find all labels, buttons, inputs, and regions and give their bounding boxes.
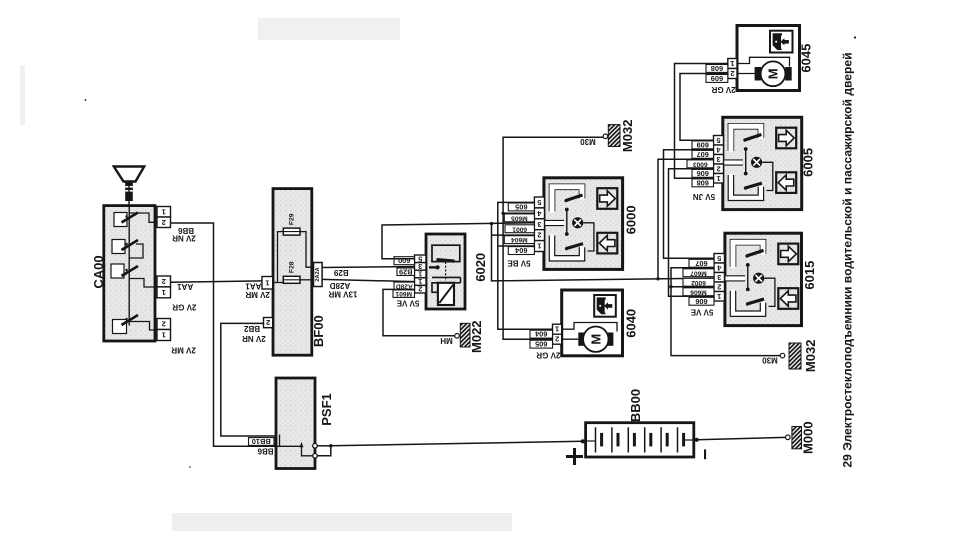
label 605 [508,203,534,211]
svg-text:M: M [588,334,603,345]
svg-text:5V BE: 5V BE [507,258,531,267]
svg-text:2V MR: 2V MR [245,290,270,299]
svg-text:M30: M30 [762,356,778,365]
svg-text:M606: M606 [690,288,707,295]
svg-text:B29: B29 [399,267,413,276]
svg-text:M032: M032 [803,340,818,373]
svg-text:MH: MH [440,336,453,345]
svg-text:6045: 6045 [799,44,814,73]
svg-text:M607: M607 [690,269,707,276]
6045 motor symbol [737,57,790,66]
junction M605 [501,212,504,215]
6015 connector pins [714,254,725,264]
svg-text:2: 2 [162,218,166,227]
svg-text:1: 1 [162,207,166,216]
label 606 at 6015 [689,297,714,305]
faint scan artifacts [258,18,400,40]
svg-text:M604: M604 [511,236,528,243]
wire M607/M606 to ground [671,268,780,356]
label 607 at 6005 [692,150,714,158]
6045 door icon [770,31,793,53]
speck [854,36,856,38]
label M601 [393,290,415,298]
svg-text:6040: 6040 [624,309,639,338]
svg-text:2V MR: 2V MR [171,346,196,355]
svg-text:1: 1 [537,242,541,251]
svg-text:2V NR: 2V NR [172,234,196,243]
svg-text:PSF1: PSF1 [319,393,334,426]
label minus [704,449,706,459]
switch 6020 [426,234,465,309]
svg-text:CA00: CA00 [91,255,106,288]
CA00 internal contacts [114,213,127,227]
label M606 [683,288,714,296]
wire AA1 CA00 to BF00 [171,281,263,282]
ground M000 [786,435,791,440]
label 6001 [505,225,534,233]
svg-text:2: 2 [555,335,559,344]
ground M022 [455,334,460,339]
svg-text:604: 604 [534,330,547,339]
switch 6005 [723,117,802,209]
label B29 at 6020 [397,268,415,276]
svg-text:M: M [766,68,781,79]
svg-text:F28: F28 [288,261,295,273]
svg-text:6001: 6001 [512,225,527,232]
label 6003 [687,160,714,168]
svg-text:2V GR: 2V GR [172,303,196,312]
svg-text:1: 1 [717,292,721,301]
svg-text:2V NR: 2V NR [242,334,266,343]
wire BB6 CA00 to PSF1 [171,223,277,446]
svg-text:605: 605 [515,202,527,211]
CA00 connector pins 2/1 (middle) [157,276,171,287]
svg-text:BB6: BB6 [257,446,274,455]
ground M032 right [780,353,785,358]
battery cells [595,427,597,452]
svg-text:6015: 6015 [802,261,817,290]
6000 interior [545,187,618,258]
label 604 [508,247,534,255]
CA00 connector pins 1/2 (top) [157,207,171,218]
wire M605 stub [503,212,534,214]
BF00 pin 1 [262,277,273,290]
svg-text:M605: M605 [511,214,528,221]
fuse box BF00 [273,189,312,356]
fuse F29 [283,228,300,235]
label 607 at 6015 [689,259,714,267]
svg-text:606: 606 [697,169,709,178]
label 609 [706,75,728,83]
wire 600 [382,223,534,259]
svg-text:604: 604 [514,246,527,255]
svg-text:A28D: A28D [396,282,413,289]
svg-text:3: 3 [717,273,721,282]
svg-text:1: 1 [716,174,720,183]
6045 connector pins [728,59,737,69]
svg-text:2: 2 [537,231,541,240]
svg-text:1: 1 [555,325,559,334]
junction 6003 on 6002 wire [656,277,659,280]
relay box PSF1 [276,378,315,469]
CA00 connector pins 2/1 (bottom) [157,319,171,330]
svg-text:2: 2 [717,282,721,291]
scan artifact band bottom [172,513,512,531]
svg-text:606: 606 [695,297,707,306]
label 606 at 6005 [692,169,714,177]
label M605 [504,214,534,222]
label plus [566,448,583,465]
svg-text:2: 2 [418,285,422,294]
wire key to CA00 [128,181,130,207]
wire PSF1 terminals join [317,446,331,456]
label 6002 [683,278,714,286]
svg-text:6003: 6003 [693,160,708,167]
svg-text:2: 2 [716,164,720,173]
6000 connector pins [534,197,544,208]
svg-text:1: 1 [265,278,269,287]
battery BB00 [586,423,694,457]
label 604 at 6040 [530,330,553,338]
svg-text:29 Электростеклоподъемники вод: 29 Электростеклоподъемники водительской … [841,52,855,467]
svg-text:5V JN: 5V JN [693,192,715,201]
6020 interior [432,245,460,261]
svg-text:2: 2 [162,320,166,329]
svg-text:13V MR: 13V MR [328,289,357,298]
svg-text:1: 1 [162,331,166,340]
svg-text:BB00: BB00 [628,389,643,422]
svg-text:608: 608 [711,64,723,73]
svg-text:2: 2 [162,277,166,286]
svg-text:AA1: AA1 [245,281,262,290]
6005 connector pins [714,136,724,146]
svg-text:M30: M30 [580,137,596,146]
wire M30 ground lane to 6040 [503,137,605,339]
ignition switch CA00 [104,206,155,341]
label 605 at 6040 [530,340,553,348]
svg-text:609: 609 [711,74,723,83]
label BB10 [249,438,275,446]
PSF1 internal wire and terminals [274,445,302,447]
label A28D at 6020 [394,282,415,290]
wire 609 6045 to 6005 [680,74,728,141]
svg-text:B29: B29 [333,268,348,277]
svg-text:6005: 6005 [800,148,815,177]
window motor 6040 [562,290,623,356]
BF00 internal wiring [273,282,284,284]
svg-text:3: 3 [716,155,720,164]
svg-text:5: 5 [537,198,541,207]
svg-text:M022: M022 [469,320,484,353]
wire 605 lane to 6040 [498,202,553,329]
svg-text:608: 608 [697,178,709,187]
label M607 [683,269,714,277]
6020 connector pins [415,255,427,263]
wire M601 to ground M022 [383,289,455,335]
svg-text:6000: 6000 [623,205,638,234]
battery terminals [581,439,585,443]
svg-text:5: 5 [717,254,721,263]
svg-text:3: 3 [537,220,541,229]
label 600 [394,257,415,265]
svg-text:BF00: BF00 [311,315,326,347]
svg-text:2A2A: 2A2A [315,267,321,281]
6040 motor symbol [562,323,617,332]
svg-text:6002: 6002 [691,279,706,286]
svg-text:1: 1 [730,59,734,68]
wire A28D [322,279,414,281]
svg-text:F29: F29 [288,213,295,225]
svg-text:1: 1 [162,288,166,297]
svg-text:2: 2 [730,69,734,78]
svg-text:605: 605 [535,340,547,349]
svg-text:5: 5 [716,136,720,145]
connector 2A2A [314,263,323,287]
wire 606 6005 to 6015 [669,169,715,297]
svg-text:BB2: BB2 [243,324,260,333]
key symbol [114,167,144,182]
label M604 [504,236,534,244]
label 608 at 6005 [692,179,714,187]
wire BB2 BF00 to PSF1 [221,323,280,446]
switch 6000 [544,178,623,270]
wire 604 stub [498,245,535,247]
wire 608 6045 to 6005 [675,64,728,179]
svg-text:609: 609 [697,140,709,149]
svg-text:607: 607 [695,259,707,268]
wire M604 stub [492,234,535,236]
svg-text:607: 607 [697,150,709,159]
label 609 at 6005 [692,141,714,149]
wire battery to M000 [697,437,786,439]
svg-text:6020: 6020 [473,253,488,282]
label 608 [706,65,728,73]
fuse F28 [283,276,300,283]
junction 6001 [490,222,493,225]
6040 connector pins [553,324,562,334]
wire PSF1 to battery + [331,441,583,446]
svg-text:5V VE: 5V VE [690,308,713,317]
wire 6001/6002 lane [492,224,715,281]
BF00 pin 2 [264,318,273,328]
wire B29 [322,266,414,269]
junction M606 [669,285,672,288]
svg-text:M032: M032 [620,120,635,153]
wire 6003 to 6002 [658,159,714,279]
switch 6015 [725,233,802,325]
svg-text:AA1: AA1 [177,282,194,291]
window motor 6045 [737,26,800,91]
svg-text:M000: M000 [801,421,816,454]
svg-text:BB10: BB10 [252,437,271,446]
ground M032 top [603,134,608,139]
svg-text:5V VE: 5V VE [396,298,419,307]
svg-text:600: 600 [398,256,410,265]
svg-text:2V GR: 2V GR [536,350,560,359]
svg-text:M601: M601 [395,290,412,297]
svg-text:2V GR: 2V GR [711,85,735,94]
wire 607 6005 to 6015 [664,150,715,259]
svg-text:A28D: A28D [330,281,351,290]
svg-text:2: 2 [266,318,270,327]
6040 door icon [594,295,616,317]
